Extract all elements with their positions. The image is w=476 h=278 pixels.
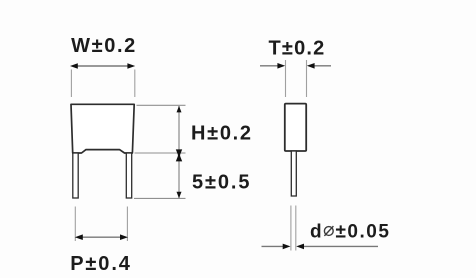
svg-text:H±0.2: H±0.2 xyxy=(191,123,253,145)
svg-text:P±0.4: P±0.4 xyxy=(70,253,132,275)
svg-text:±0.05: ±0.05 xyxy=(336,222,391,243)
svg-text:d: d xyxy=(310,222,322,243)
svg-text:T±0.2: T±0.2 xyxy=(269,38,326,60)
svg-text:5±0.5: 5±0.5 xyxy=(192,172,251,194)
svg-text:W±0.2: W±0.2 xyxy=(71,35,137,57)
